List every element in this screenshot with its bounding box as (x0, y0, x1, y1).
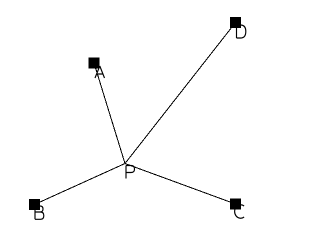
wire segment P-B (35, 164, 126, 205)
node B marker (29, 199, 40, 210)
wire segment P-D (125, 23, 236, 164)
node A marker (89, 58, 100, 69)
node C label (235, 205, 244, 219)
node D marker (230, 17, 241, 28)
node B label (35, 206, 44, 219)
node A label (95, 66, 105, 78)
node D label (237, 25, 246, 38)
wire segment P-A (94, 63, 125, 164)
node C marker (230, 199, 241, 210)
wire segment P-C (125, 164, 236, 205)
node P label (126, 166, 135, 179)
